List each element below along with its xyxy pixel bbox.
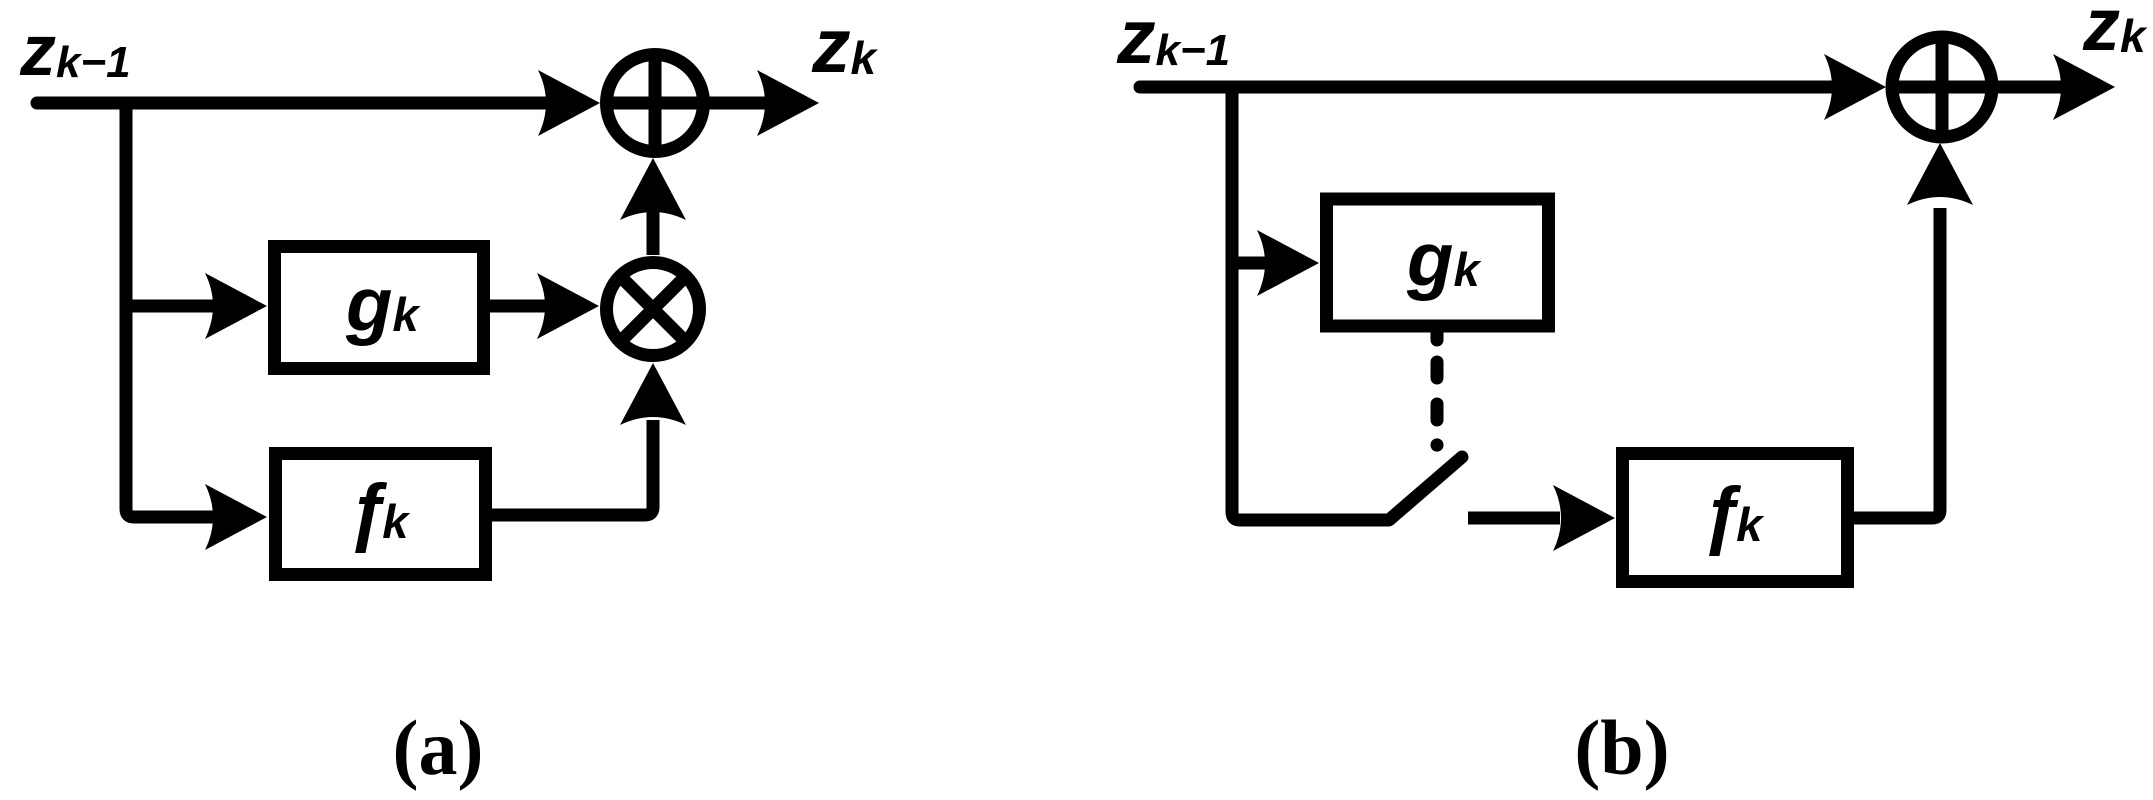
- svg-text:(a): (a): [393, 704, 484, 791]
- block fk (a): [276, 454, 486, 575]
- arrowhead into gk (a): [205, 273, 267, 339]
- block fk (b): [1623, 454, 1848, 582]
- wire branch to gk (b): [1232, 257, 1268, 270]
- block gk (a): [275, 247, 484, 369]
- svg-text:zk: zk: [811, 3, 879, 89]
- wire output of adder (b): [1996, 81, 2062, 94]
- wire output of adder (a): [706, 97, 768, 110]
- node zk-1 input wire (a): main horizontal line: [37, 97, 552, 110]
- arrowhead output zk (b): [2053, 54, 2115, 120]
- svg-text:zk: zk: [2082, 0, 2148, 66]
- wire switch to fk (b): [1468, 512, 1560, 525]
- wire branch to gk (a): [126, 300, 216, 313]
- svg-text:zk−1: zk−1: [19, 11, 131, 91]
- node zk-1 input wire (b): main horizontal line: [1140, 81, 1838, 94]
- wire fk output up to multiplier (a): [490, 420, 653, 515]
- wire fk output up to adder (b): [1851, 208, 1940, 518]
- arrowhead into fk (b): [1553, 485, 1615, 551]
- multiplier U+2297 (a): [607, 263, 700, 356]
- wire left vertical branch (a): [126, 97, 216, 517]
- arrowhead into gk (b): [1257, 230, 1319, 296]
- arrowhead fk->adder (b): [1907, 143, 1973, 205]
- adder U+2295 (b): [1890, 35, 1994, 139]
- wire gk output to multiplier (a): [488, 300, 552, 313]
- dashed control line from gk to switch (b): [1431, 333, 1444, 445]
- arrowhead output zk (a): [757, 70, 819, 136]
- svg-text:zk−1: zk−1: [1116, 0, 1230, 80]
- svg-text:(b): (b): [1574, 704, 1669, 791]
- switch blade (b): [1389, 457, 1462, 520]
- adder U+2295 (a): [604, 52, 706, 154]
- wire multiplier to adder (a): [647, 212, 660, 255]
- arrowhead into adder (a): [538, 70, 600, 136]
- block gk (b): [1327, 199, 1549, 326]
- arrowhead into multiplier (a): [537, 273, 599, 339]
- arrowhead fk->multiplier (a): [620, 363, 686, 425]
- wire left vertical branch to switch (b): [1232, 81, 1389, 520]
- arrowhead multiplier->adder (a): [620, 158, 686, 220]
- arrowhead into fk (a): [205, 484, 267, 550]
- arrowhead into adder (b): [1824, 54, 1886, 120]
